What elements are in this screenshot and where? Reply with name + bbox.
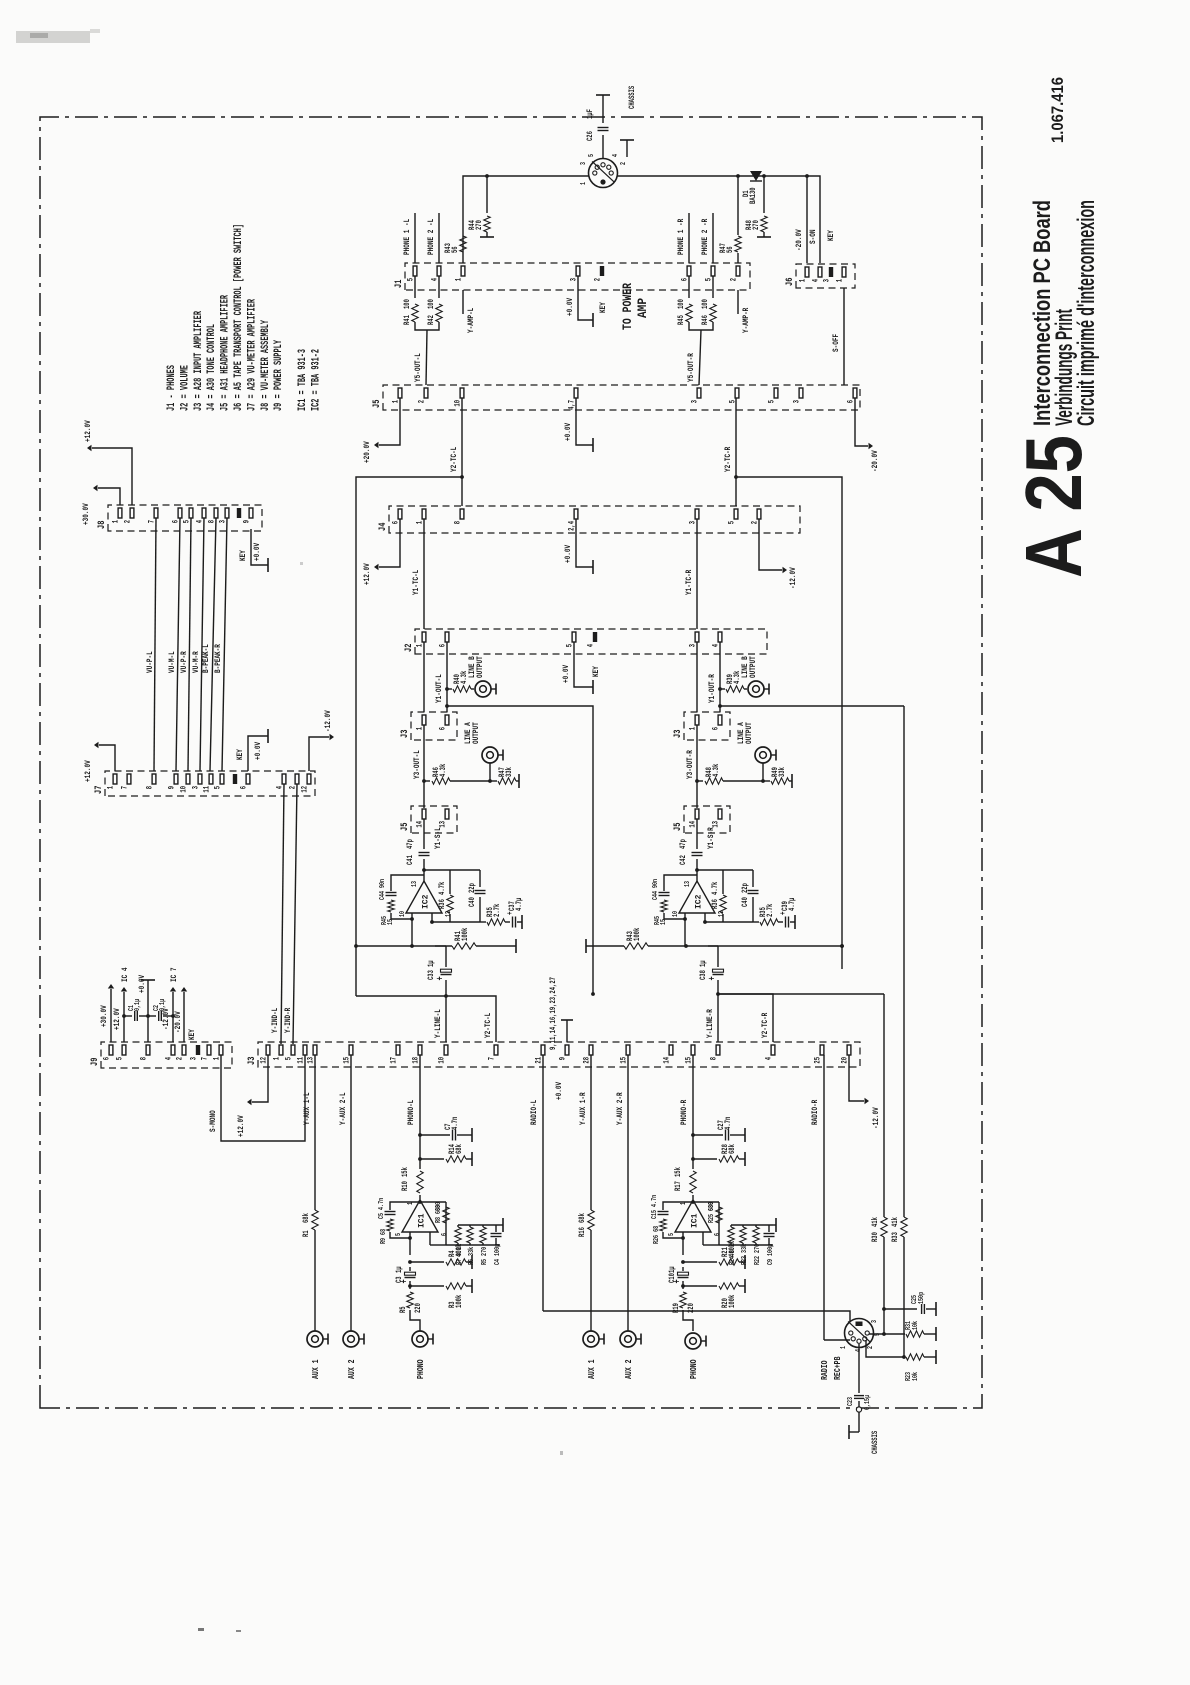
- svg-text:R36: R36: [712, 899, 720, 909]
- svg-text:4.3k: 4.3k: [440, 763, 448, 777]
- resistor R35 2.7k L: [480, 903, 505, 925]
- svg-text:8: 8: [141, 1057, 149, 1061]
- connector J7: [93, 771, 315, 796]
- resistor R20 100k R: [681, 1279, 745, 1308]
- svg-text:-12.0V: -12.0V: [788, 567, 798, 589]
- svg-text:-20.0V: -20.0V: [870, 450, 880, 472]
- svg-text:4.7n: 4.7n: [725, 1116, 733, 1130]
- connector J5 (headphone L): [399, 806, 457, 833]
- pin J5-6: [848, 388, 857, 403]
- wire RADIO-R: [810, 1055, 850, 1340]
- svg-text:3: 3: [794, 400, 802, 404]
- wire stub Y-AMP-L: [463, 290, 476, 333]
- svg-text:BA130: BA130: [750, 187, 758, 204]
- label PHONO-R: [679, 1099, 689, 1125]
- resistor R42 100: [428, 276, 442, 325]
- svg-text:Y1-S-R: Y1-S-R: [706, 827, 716, 849]
- pin J7-7: [122, 774, 131, 789]
- wire Y-AUX 2-R: [615, 1055, 628, 1331]
- capacitor C39 4.7u R: [778, 897, 797, 929]
- svg-text:2.7k: 2.7k: [767, 903, 775, 917]
- pin J8-3: [220, 508, 229, 523]
- svg-text:41k: 41k: [892, 1217, 900, 1227]
- svg-text:56: 56: [727, 246, 735, 253]
- pin J5-10: [455, 388, 464, 407]
- svg-text:4: 4: [166, 1057, 174, 1061]
- pin J5-5: [730, 388, 739, 403]
- op-amp IC1 R: [668, 1200, 722, 1236]
- ground J1 pin3: [565, 276, 593, 327]
- resistor R48b 4.3k (LINE A R): [695, 763, 763, 784]
- svg-text:KEY: KEY: [826, 229, 836, 241]
- svg-text:14: 14: [664, 1057, 672, 1064]
- svg-text:Y1-OUT-R: Y1-OUT-R: [707, 673, 717, 703]
- bus tape R (J5/J4 to IC2-R input): [736, 477, 844, 969]
- svg-text:100k: 100k: [456, 1294, 464, 1308]
- wire Y1-TC-R: [684, 519, 697, 629]
- bus tape L (J5/J4 to IC2-L input): [354, 477, 462, 996]
- svg-text:7: 7: [122, 786, 130, 790]
- wire stub PHONE 1 -L: [402, 213, 415, 263]
- capacitor C9 100μ 100u R: [764, 1218, 777, 1265]
- ground J4 mid: [563, 519, 593, 574]
- svg-text:J3: J3: [399, 730, 410, 738]
- RC pair C44 R45 L: [379, 875, 424, 925]
- pin J5-2: [419, 388, 428, 403]
- pin J2-4: [713, 632, 722, 647]
- capacitor C27 4.7n shunt R: [693, 1116, 745, 1142]
- RC pair C5 4.7n R9 68 L: [378, 1198, 420, 1244]
- wire stub Y-AMP-R: [738, 290, 751, 333]
- svg-text:Y3-OUT-L: Y3-OUT-L: [412, 750, 422, 779]
- pin J5L-13: [440, 809, 449, 828]
- wire stub PHONE 1 -R: [676, 213, 689, 263]
- wire Y1-OUT-L drop: [447, 706, 595, 996]
- svg-text:8: 8: [711, 1057, 719, 1061]
- svg-text:7: 7: [202, 1057, 210, 1061]
- resistor R24 8.2k 8.2k R: [728, 1225, 737, 1265]
- svg-text:Circuit imprimé d'interconnexi: Circuit imprimé d'interconnexion: [1073, 200, 1100, 426]
- label S-ON: [808, 230, 818, 245]
- pin J1-3: [571, 266, 580, 281]
- svg-text:R33: R33: [892, 1232, 900, 1242]
- svg-text:PHONO-R: PHONO-R: [679, 1099, 689, 1125]
- resistor R36 4.7k L: [439, 870, 453, 922]
- power -12.0V at J7: [309, 710, 334, 771]
- pin J3L-1: [417, 715, 426, 730]
- pin J5-5: [769, 388, 778, 403]
- wire IC1 input L: [410, 1232, 420, 1331]
- svg-text:+: +: [707, 976, 718, 980]
- svg-text:5: 5: [668, 1233, 676, 1236]
- svg-text:+0.0V: +0.0V: [563, 422, 573, 441]
- svg-text:IC 7: IC 7: [169, 968, 179, 983]
- wire Y-LINE-R label: [705, 1008, 715, 1038]
- connector J5 (headphone R): [672, 806, 730, 833]
- svg-text:VU-M-R: VU-M-R: [191, 651, 201, 673]
- svg-text:9: 9: [169, 786, 177, 790]
- wire stub PHONE 2 -R: [700, 213, 713, 263]
- pin J3L-6: [440, 715, 449, 730]
- svg-text:+: +: [778, 911, 788, 915]
- svg-text:9,11,14,16,19,23,24,27: 9,11,14,16,19,23,24,27: [550, 977, 558, 1050]
- svg-text:Y-LINE-L: Y-LINE-L: [433, 1009, 443, 1038]
- svg-text:100k: 100k: [634, 927, 642, 941]
- wire IC2 -input L: [431, 913, 433, 922]
- svg-text:J2: J2: [403, 644, 414, 652]
- power +12.0V at J3: [236, 1055, 268, 1137]
- svg-text:R46: R46: [702, 315, 710, 325]
- svg-text:4.7k: 4.7k: [712, 881, 720, 895]
- wire IC2-R + input feed: [686, 944, 844, 948]
- resistor R5 270 270 L: [480, 1225, 489, 1265]
- svg-text:100: 100: [404, 299, 412, 309]
- label Y1-OUT-R: [707, 673, 717, 703]
- capacitor C42 47p R: [680, 833, 703, 865]
- svg-text:90n: 90n: [379, 879, 387, 888]
- svg-text:+0.0V: +0.0V: [563, 544, 573, 563]
- power -12.0V at J3 right: [849, 1055, 881, 1129]
- svg-text:8: 8: [455, 521, 463, 525]
- svg-text:7: 7: [489, 1057, 497, 1061]
- svg-text:9: 9: [244, 520, 252, 524]
- svg-text:4.7μ: 4.7μ: [789, 897, 797, 911]
- pin J1-6: [682, 266, 691, 281]
- wire IC1 feedback R: [691, 1200, 719, 1223]
- pin J1-2: [595, 266, 605, 281]
- op-amp IC1 L: [395, 1200, 449, 1236]
- pin J6-4: [813, 267, 822, 282]
- connector J4: [377, 506, 800, 533]
- svg-text:100k: 100k: [729, 1294, 737, 1308]
- pin J4-3: [690, 509, 699, 524]
- connector J3: [246, 1042, 860, 1067]
- svg-text:1: 1: [580, 182, 588, 185]
- power +30.0V at J9: [99, 984, 114, 1042]
- svg-text:6: 6: [104, 1057, 112, 1061]
- resistor R46b 4.3k (LINE A L): [422, 763, 490, 784]
- label KEY J9: [187, 1028, 197, 1040]
- label Y1-OUT-L: [434, 674, 444, 703]
- part number 1.067.416: [1048, 77, 1067, 143]
- jack LINE A OUTPUT L: [463, 722, 503, 781]
- svg-text:J3: J3: [672, 730, 683, 738]
- svg-text:4: 4: [612, 153, 620, 157]
- svg-text:J7: J7: [93, 786, 104, 794]
- pin J8-7: [149, 508, 158, 523]
- svg-text:1μF: 1μF: [587, 109, 595, 119]
- connector J1: [393, 263, 750, 290]
- RC pair C15 4.7n R26 68 R: [651, 1195, 693, 1244]
- pin J3-25: [815, 1045, 824, 1064]
- pin J9-8: [141, 1045, 150, 1060]
- svg-text:C33: C33: [428, 970, 436, 980]
- svg-text:4.7μ: 4.7μ: [516, 897, 524, 911]
- svg-text:J4: J4: [377, 523, 388, 531]
- resistor R17 15k R: [675, 1167, 696, 1193]
- chassis stub: [620, 140, 634, 157]
- svg-text:+30.0V: +30.0V: [81, 503, 91, 525]
- resistor R28 68k shunt R: [693, 1144, 745, 1166]
- pin J1-2: [731, 266, 740, 281]
- svg-text:C44: C44: [379, 890, 387, 900]
- wire Y-AUX 1-R: [578, 1055, 591, 1331]
- svg-text:Y-IND-R: Y-IND-R: [283, 1007, 293, 1033]
- svg-text:J9: J9: [89, 1058, 100, 1066]
- power +12.0V at J7: [83, 742, 115, 782]
- svg-text:S-MONO: S-MONO: [208, 1110, 218, 1132]
- pin J2-5: [567, 632, 576, 647]
- resistor R30 41k: [872, 994, 887, 1309]
- wire J6 pin1 to supply: [805, 174, 809, 263]
- svg-text:R41: R41: [404, 315, 412, 325]
- resistor R3 100k L: [408, 1279, 472, 1308]
- pin J3R-6: [713, 715, 722, 730]
- pin J7-9: [169, 774, 178, 789]
- ground pins stub J3: [554, 1020, 573, 1100]
- svg-text:-20.0V: -20.0V: [173, 1011, 183, 1033]
- svg-text:680: 680: [708, 1202, 716, 1211]
- capacitor C2 0.1u: [148, 999, 173, 1021]
- jack AUX 2 R: [620, 1331, 641, 1379]
- title text block: [1029, 200, 1100, 426]
- svg-text:KEY: KEY: [187, 1028, 197, 1040]
- svg-text:+12.0V: +12.0V: [83, 420, 93, 442]
- label KEY J2: [591, 665, 601, 677]
- svg-text:J3: J3: [246, 1057, 257, 1065]
- pin J7-12: [302, 774, 311, 793]
- svg-text:R26 68: R26 68: [653, 1226, 661, 1244]
- svg-text:8: 8: [147, 786, 155, 790]
- svg-text:R1: R1: [303, 1230, 311, 1237]
- pin J8-4: [197, 508, 206, 523]
- chassis ground bottom: [849, 1425, 880, 1454]
- svg-text:R16: R16: [579, 1227, 587, 1237]
- pin J3-8: [711, 1045, 720, 1060]
- svg-text:C9 100μ: C9 100μ: [767, 1244, 775, 1265]
- svg-text:J8 = VU-METER ASSEMBLY: J8 = VU-METER ASSEMBLY: [260, 320, 272, 411]
- pin J7-10: [181, 774, 190, 793]
- svg-text:C41: C41: [407, 855, 415, 865]
- svg-text:2: 2: [620, 162, 628, 165]
- svg-text:R30: R30: [872, 1232, 880, 1242]
- connector J3 (output L): [399, 712, 457, 740]
- svg-text:13: 13: [411, 881, 419, 887]
- pin J4-1: [417, 509, 426, 524]
- capacitor C7 4.7n shunt L: [420, 1116, 472, 1142]
- svg-text:2: 2: [177, 1057, 185, 1061]
- svg-text:R5: R5: [400, 1306, 408, 1313]
- wire DIN pin3 to R30 node: [869, 1307, 886, 1336]
- capacitor C37 4.7u L: [505, 897, 524, 929]
- svg-text:3: 3: [692, 400, 700, 404]
- svg-text:+: +: [505, 911, 515, 915]
- jack PHONO R: [685, 1333, 706, 1379]
- capacitor C10 1u R: [669, 1266, 689, 1283]
- resistor R45 100: [678, 276, 692, 325]
- svg-text:+12.0V: +12.0V: [83, 760, 93, 782]
- svg-text:68k: 68k: [303, 1213, 311, 1223]
- svg-text:10: 10: [399, 911, 407, 917]
- pin J5-3: [692, 388, 701, 403]
- resistor R36 4.7k R: [712, 870, 726, 922]
- svg-text:VU-P-R: VU-P-R: [179, 651, 189, 673]
- svg-text:S-ON: S-ON: [808, 230, 818, 245]
- pin J3-5: [286, 1045, 295, 1060]
- svg-text:+0.0V: +0.0V: [253, 741, 263, 760]
- svg-text:4: 4: [588, 644, 596, 648]
- svg-text:C5 4.7n: C5 4.7n: [378, 1198, 386, 1219]
- resistor R49 33k (R): [761, 767, 792, 788]
- wire Y1-S-R J5s: [685, 725, 697, 808]
- svg-text:KEY: KEY: [238, 549, 248, 561]
- wire IC1 ladder rails L: [430, 1223, 500, 1245]
- resistor R5 220 L: [400, 1292, 423, 1313]
- pin J4-5: [729, 509, 738, 524]
- wire stub PHONE 2 -L: [426, 213, 439, 263]
- pin J7-4: [277, 774, 286, 789]
- label KEY J6: [826, 229, 836, 241]
- svg-text:33k: 33k: [506, 767, 514, 777]
- svg-text:12: 12: [445, 911, 453, 917]
- label grounded pins list: [550, 977, 558, 1050]
- svg-text:6: 6: [714, 1233, 722, 1236]
- wire Y1-OUT-R drop: [720, 705, 904, 707]
- svg-text:AUX 2: AUX 2: [623, 1359, 634, 1379]
- wire Y2-TC-L: [449, 398, 464, 506]
- svg-text:5: 5: [215, 786, 223, 790]
- svg-text:5: 5: [117, 1057, 125, 1061]
- wire RADIO-L: [529, 1055, 850, 1322]
- svg-text:J1 - PHONES: J1 - PHONES: [166, 365, 178, 411]
- svg-text:Y2-TC-L: Y2-TC-L: [483, 1013, 493, 1038]
- svg-text:REC+PB: REC+PB: [832, 1356, 843, 1380]
- svg-text:Y-AMP-R: Y-AMP-R: [741, 307, 751, 333]
- resistor R14 68k shunt L: [420, 1144, 472, 1166]
- svg-text:17: 17: [391, 1057, 399, 1064]
- pin J1-1: [456, 266, 465, 281]
- jack AUX 2 L: [343, 1331, 364, 1379]
- svg-text:B-PEAK-L: B-PEAK-L: [201, 644, 211, 673]
- svg-text:4.7k: 4.7k: [439, 881, 447, 895]
- capacitor C26 1uF: [587, 95, 609, 158]
- svg-text:+12.0V: +12.0V: [112, 1008, 122, 1030]
- pin J3-9: [560, 1045, 569, 1060]
- svg-text:4.3k: 4.3k: [713, 763, 721, 777]
- svg-text:Y1-OUT-L: Y1-OUT-L: [434, 674, 444, 703]
- pin J3-11: [298, 1045, 307, 1064]
- resistor R25 680 680 R: [708, 1202, 722, 1223]
- svg-text:3: 3: [824, 279, 832, 283]
- svg-text:AMP: AMP: [635, 298, 650, 318]
- svg-text:Y-AMP-L: Y-AMP-L: [466, 308, 476, 333]
- title A 25: [1009, 435, 1098, 578]
- wire Y3-OUT-L: [413, 322, 439, 385]
- svg-text:J6: J6: [784, 278, 795, 286]
- svg-text:1: 1: [456, 278, 464, 282]
- svg-text:VU-M-L: VU-M-L: [167, 651, 177, 673]
- wire Y1-S-L (IC2-L out to J5): [424, 819, 443, 849]
- svg-text:CHASSIS: CHASSIS: [872, 1431, 880, 1454]
- svg-text:PHONE 1 -L: PHONE 1 -L: [402, 219, 412, 255]
- svg-text:12: 12: [302, 786, 310, 793]
- resistor R10 15k L: [402, 1167, 423, 1193]
- pin J9-7: [202, 1045, 211, 1060]
- pin J8-9: [244, 508, 253, 523]
- svg-text:1: 1: [108, 786, 116, 790]
- wire IC2 output R: [695, 859, 699, 881]
- svg-text:100: 100: [702, 299, 710, 309]
- wire IC2 feedback rails L: [424, 870, 480, 924]
- resistor R31 10k: [884, 1320, 936, 1341]
- wire IC2 output L: [422, 859, 426, 881]
- svg-text:1: 1: [113, 520, 121, 524]
- svg-text:5: 5: [769, 400, 777, 404]
- pin J6-1: [837, 267, 846, 282]
- svg-text:68k: 68k: [729, 1144, 737, 1154]
- pin J2-3: [690, 632, 699, 647]
- svg-text:6: 6: [713, 727, 721, 731]
- svg-text:KEY: KEY: [591, 665, 601, 677]
- svg-text:TO POWER: TO POWER: [620, 283, 635, 330]
- svg-text:OUTPUT: OUTPUT: [748, 656, 758, 678]
- resistor R23 10k: [866, 1340, 936, 1381]
- pin J8-8: [209, 508, 218, 523]
- chassis ground top right: [596, 86, 637, 109]
- svg-text:RADIO: RADIO: [819, 1360, 830, 1380]
- wire Y-IND-L (J7 to J3): [270, 784, 284, 1044]
- pin J3-20: [842, 1045, 851, 1064]
- pin J2-1: [417, 632, 426, 647]
- pin J3-14: [664, 1045, 673, 1064]
- svg-text:Y5-OUT-L: Y5-OUT-L: [413, 353, 423, 382]
- wire J3s-R to J2 (line out R): [696, 642, 698, 712]
- resistor R16 68k: [579, 1210, 594, 1237]
- resistor R4 400k L: [408, 1243, 472, 1269]
- wire IC1 ladder rails R: [703, 1223, 773, 1245]
- legend connector list: [166, 224, 322, 411]
- wire S-OFF J6 to J5: [831, 288, 844, 385]
- svg-text:J5: J5: [371, 400, 382, 408]
- connector J5: [371, 385, 860, 410]
- svg-text:B-PEAK-R: B-PEAK-R: [213, 643, 223, 673]
- svg-text:41k: 41k: [872, 1217, 880, 1227]
- svg-text:Y1-TC-R: Y1-TC-R: [684, 569, 694, 595]
- pin J3-13: [308, 1045, 317, 1064]
- svg-text:J6 = A5 TAPE TRANSPORT CONTROL: J6 = A5 TAPE TRANSPORT CONTROL [POWER SW…: [233, 224, 245, 411]
- wire Y-AUX 2-L: [338, 1055, 351, 1331]
- svg-text:47p: 47p: [407, 839, 415, 849]
- connector J6: [784, 264, 855, 288]
- jack LINE A OUTPUT R: [736, 722, 776, 781]
- resistor R43 56: [445, 236, 466, 253]
- svg-text:KEY: KEY: [598, 301, 608, 313]
- pin J4-2,4: [569, 509, 578, 531]
- svg-text:RADIO-L: RADIO-L: [529, 1100, 539, 1125]
- power +12.0V at J4: [362, 519, 400, 585]
- svg-text:4.7n: 4.7n: [452, 1116, 460, 1130]
- connector J2: [403, 629, 767, 654]
- wire DIN to J6 (switch): [617, 176, 820, 263]
- svg-text:-12.0V: -12.0V: [871, 1107, 881, 1129]
- pin J4-2: [752, 509, 761, 524]
- pin J8-6: [173, 508, 182, 523]
- ground J2 mid: [561, 642, 593, 694]
- svg-text:PHONE 1 -R: PHONE 1 -R: [676, 218, 686, 255]
- svg-text:R24 8.2k: R24 8.2k: [729, 1240, 737, 1265]
- svg-text:C4 100μ: C4 100μ: [494, 1244, 502, 1265]
- svg-text:+12.0V: +12.0V: [236, 1115, 246, 1137]
